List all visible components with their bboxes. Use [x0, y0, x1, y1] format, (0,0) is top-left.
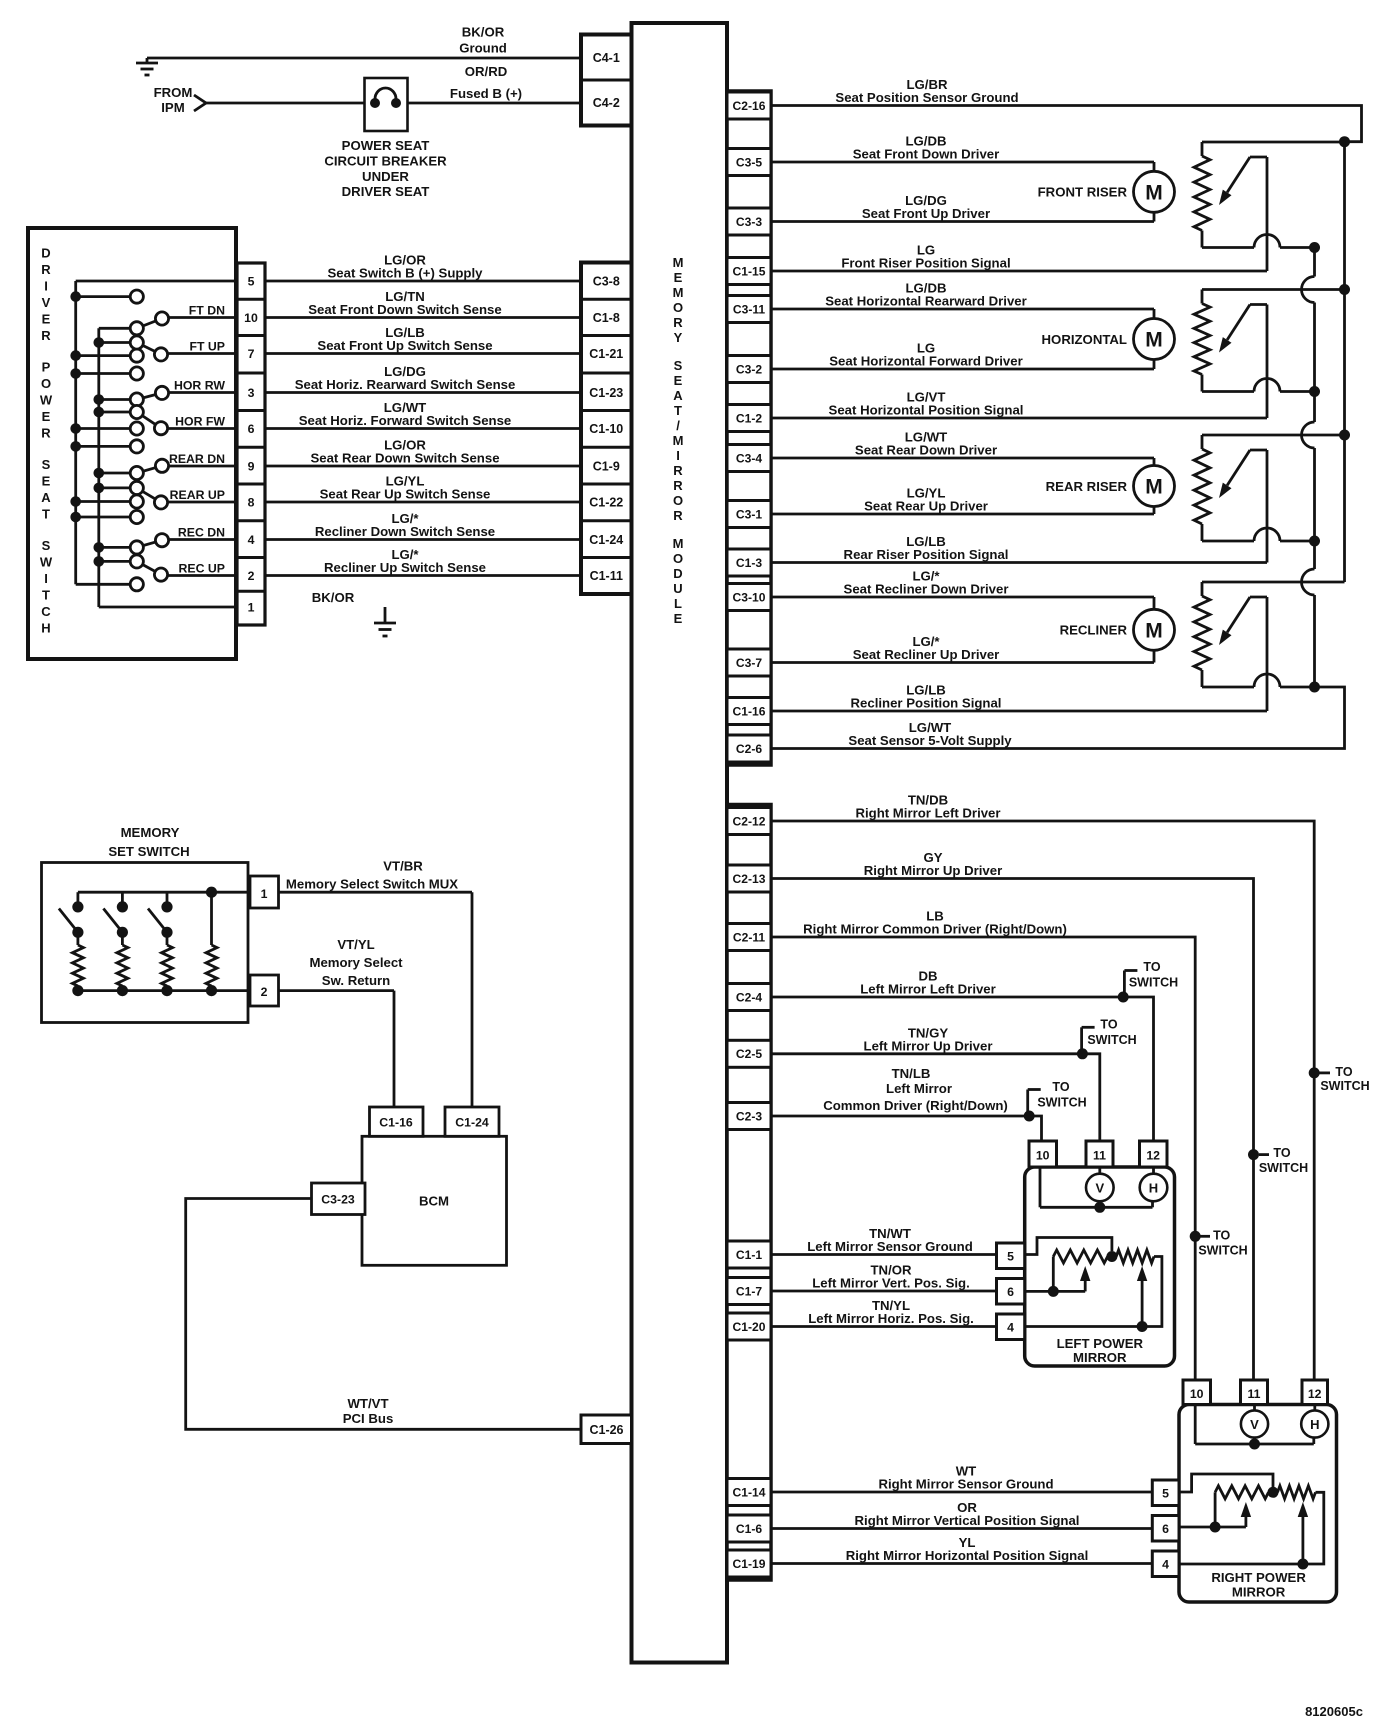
- svg-text:C3-11: C3-11: [733, 302, 766, 316]
- svg-text:VT/BR: VT/BR: [383, 859, 423, 874]
- svg-text:A: A: [673, 388, 683, 403]
- svg-text:TO: TO: [1335, 1065, 1352, 1079]
- svg-text:C3-10: C3-10: [733, 590, 766, 604]
- svg-text:R: R: [41, 262, 51, 277]
- svg-text:8: 8: [248, 496, 255, 510]
- svg-text:2: 2: [261, 985, 268, 999]
- svg-text:L: L: [674, 596, 682, 611]
- svg-text:M: M: [673, 285, 684, 300]
- svg-text:O: O: [673, 493, 683, 508]
- svg-text:/: /: [676, 418, 680, 433]
- svg-text:4: 4: [1007, 1321, 1014, 1335]
- svg-text:U: U: [673, 581, 682, 596]
- svg-text:E: E: [674, 373, 683, 388]
- svg-text:C1-21: C1-21: [589, 347, 623, 361]
- svg-text:R: R: [673, 315, 683, 330]
- svg-text:C2-6: C2-6: [736, 742, 762, 756]
- svg-text:C1-24: C1-24: [589, 533, 623, 547]
- svg-text:M: M: [673, 433, 684, 448]
- svg-text:T: T: [674, 403, 682, 418]
- svg-text:4: 4: [248, 533, 255, 547]
- svg-text:C1-16: C1-16: [733, 704, 766, 718]
- svg-text:E: E: [42, 312, 51, 327]
- svg-text:C3-2: C3-2: [736, 362, 762, 376]
- svg-text:C3-8: C3-8: [593, 275, 620, 289]
- svg-text:Left Mirror: Left Mirror: [886, 1081, 952, 1096]
- svg-text:E: E: [674, 270, 683, 285]
- svg-text:Fused B (+): Fused B (+): [450, 86, 522, 101]
- svg-text:11: 11: [1093, 1149, 1106, 1163]
- svg-text:M: M: [1145, 329, 1163, 352]
- svg-text:4: 4: [1162, 1558, 1169, 1572]
- svg-text:Left Mirror Vert. Pos. Sig.: Left Mirror Vert. Pos. Sig.: [812, 1276, 970, 1291]
- svg-text:C2-16: C2-16: [733, 99, 766, 113]
- svg-text:C3-3: C3-3: [736, 215, 762, 229]
- svg-text:C1-1: C1-1: [736, 1248, 762, 1262]
- svg-text:E: E: [42, 409, 51, 424]
- svg-text:REC UP: REC UP: [179, 562, 225, 576]
- svg-text:R: R: [673, 508, 683, 523]
- svg-text:Right Mirror Up Driver: Right Mirror Up Driver: [864, 863, 1002, 878]
- svg-text:R: R: [673, 478, 683, 493]
- svg-text:C1-8: C1-8: [593, 311, 620, 325]
- svg-text:BCM: BCM: [419, 1194, 449, 1209]
- svg-text:HORIZONTAL: HORIZONTAL: [1042, 332, 1127, 347]
- svg-text:Sw. Return: Sw. Return: [322, 973, 390, 988]
- svg-text:V: V: [1250, 1417, 1259, 1432]
- svg-text:IPM: IPM: [161, 100, 184, 115]
- svg-text:11: 11: [1248, 1387, 1261, 1401]
- svg-text:C1-24: C1-24: [455, 1116, 489, 1130]
- svg-text:I: I: [44, 571, 48, 586]
- svg-text:SWITCH: SWITCH: [1129, 976, 1178, 990]
- svg-text:Recliner Down Switch Sense: Recliner Down Switch Sense: [315, 524, 495, 539]
- svg-text:Right Mirror Horizontal Positi: Right Mirror Horizontal Position Signal: [846, 1548, 1089, 1563]
- svg-text:H: H: [41, 621, 50, 636]
- svg-text:R: R: [673, 463, 683, 478]
- svg-text:W: W: [40, 393, 53, 408]
- svg-text:Rear Riser Position Signal: Rear Riser Position Signal: [844, 547, 1009, 562]
- svg-text:V: V: [42, 295, 51, 310]
- svg-text:S: S: [42, 538, 51, 553]
- svg-text:BK/OR: BK/OR: [312, 590, 355, 605]
- svg-text:1: 1: [261, 887, 268, 901]
- svg-text:C2-12: C2-12: [733, 814, 766, 828]
- svg-text:DRIVER SEAT: DRIVER SEAT: [342, 184, 430, 199]
- svg-text:C3-5: C3-5: [736, 155, 762, 169]
- svg-text:10: 10: [244, 311, 258, 325]
- svg-text:C3-7: C3-7: [736, 656, 762, 670]
- svg-text:SWITCH: SWITCH: [1087, 1033, 1136, 1047]
- svg-text:Ground: Ground: [459, 41, 507, 56]
- svg-text:C4-2: C4-2: [593, 96, 620, 110]
- svg-text:R: R: [41, 328, 51, 343]
- svg-text:C2-4: C2-4: [736, 990, 762, 1004]
- svg-text:O: O: [41, 376, 51, 391]
- svg-text:R: R: [41, 426, 51, 441]
- svg-text:UNDER: UNDER: [362, 169, 409, 184]
- svg-text:3: 3: [248, 386, 255, 400]
- svg-text:SWITCH: SWITCH: [1198, 1243, 1247, 1257]
- svg-text:Left Mirror Sensor Ground: Left Mirror Sensor Ground: [807, 1239, 973, 1254]
- svg-text:HOR FW: HOR FW: [175, 415, 225, 429]
- svg-text:Seat Horizontal Rearward Drive: Seat Horizontal Rearward Driver: [825, 294, 1027, 309]
- svg-text:C2-3: C2-3: [736, 1109, 762, 1123]
- svg-text:A: A: [41, 490, 51, 505]
- svg-text:Seat Horiz. Forward Switch Sen: Seat Horiz. Forward Switch Sense: [299, 413, 512, 428]
- svg-text:WT/VT: WT/VT: [347, 1396, 388, 1411]
- svg-text:TO: TO: [1213, 1229, 1230, 1243]
- svg-text:V: V: [1095, 1180, 1104, 1195]
- svg-text:5: 5: [1162, 1487, 1169, 1501]
- svg-text:C1-2: C1-2: [736, 411, 762, 425]
- svg-text:C1-26: C1-26: [589, 1423, 623, 1437]
- svg-text:2: 2: [248, 569, 255, 583]
- svg-text:VT/YL: VT/YL: [337, 937, 374, 952]
- svg-text:TO: TO: [1100, 1018, 1117, 1032]
- svg-text:Seat Recliner Down Driver: Seat Recliner Down Driver: [844, 582, 1009, 597]
- svg-text:LEFT POWER: LEFT POWER: [1057, 1336, 1144, 1351]
- svg-text:H: H: [1149, 1180, 1158, 1195]
- svg-text:POWER SEAT: POWER SEAT: [342, 138, 430, 153]
- svg-text:RECLINER: RECLINER: [1060, 623, 1128, 638]
- svg-text:C4-1: C4-1: [593, 51, 620, 65]
- svg-text:C1-16: C1-16: [379, 1116, 413, 1130]
- svg-text:Seat Rear Up Switch Sense: Seat Rear Up Switch Sense: [320, 487, 491, 502]
- svg-text:Seat Rear Down Driver: Seat Rear Down Driver: [855, 443, 997, 458]
- svg-text:C2-11: C2-11: [733, 930, 766, 944]
- svg-text:FROM: FROM: [154, 85, 193, 100]
- svg-text:T: T: [42, 588, 50, 603]
- svg-text:Recliner Position Signal: Recliner Position Signal: [851, 696, 1002, 711]
- svg-text:Left Mirror Up Driver: Left Mirror Up Driver: [864, 1038, 993, 1053]
- svg-text:SWITCH: SWITCH: [1037, 1096, 1086, 1110]
- svg-text:Seat Rear Down Switch Sense: Seat Rear Down Switch Sense: [310, 451, 499, 466]
- svg-text:C1-3: C1-3: [736, 556, 762, 570]
- svg-text:7: 7: [248, 347, 255, 361]
- svg-text:C1-6: C1-6: [736, 1522, 762, 1536]
- svg-text:D: D: [673, 566, 682, 581]
- svg-text:C3-23: C3-23: [321, 1193, 355, 1207]
- svg-text:D: D: [41, 246, 50, 261]
- svg-text:W: W: [40, 555, 53, 570]
- svg-text:PCI Bus: PCI Bus: [343, 1411, 394, 1426]
- svg-text:M: M: [1145, 619, 1163, 642]
- svg-text:M: M: [673, 255, 684, 270]
- svg-text:C3-4: C3-4: [736, 451, 762, 465]
- svg-text:Y: Y: [674, 330, 683, 345]
- svg-text:C: C: [41, 604, 51, 619]
- svg-text:C1-7: C1-7: [736, 1284, 762, 1298]
- svg-text:C2-13: C2-13: [733, 872, 766, 886]
- svg-text:10: 10: [1036, 1149, 1050, 1163]
- svg-text:M: M: [673, 536, 684, 551]
- svg-text:S: S: [674, 358, 683, 373]
- svg-text:I: I: [676, 448, 680, 463]
- svg-text:Seat Front Up Driver: Seat Front Up Driver: [862, 206, 990, 221]
- svg-text:TN/LB: TN/LB: [892, 1066, 931, 1081]
- svg-text:Seat Front Down Switch Sense: Seat Front Down Switch Sense: [308, 302, 501, 317]
- svg-text:O: O: [673, 551, 683, 566]
- svg-text:HOR RW: HOR RW: [174, 379, 225, 393]
- svg-text:Seat Horizontal Position Signa: Seat Horizontal Position Signal: [829, 403, 1024, 418]
- svg-text:C2-5: C2-5: [736, 1047, 762, 1061]
- svg-text:TO: TO: [1273, 1146, 1290, 1160]
- svg-text:REC DN: REC DN: [178, 526, 225, 540]
- svg-text:O: O: [673, 300, 683, 315]
- svg-text:Seat Position Sensor Ground: Seat Position Sensor Ground: [835, 90, 1018, 105]
- svg-text:P: P: [42, 360, 51, 375]
- svg-text:CIRCUIT BREAKER: CIRCUIT BREAKER: [324, 153, 447, 168]
- svg-text:Seat Horizontal Forward Driver: Seat Horizontal Forward Driver: [829, 354, 1022, 369]
- svg-text:T: T: [42, 507, 50, 522]
- svg-text:TO: TO: [1052, 1080, 1069, 1094]
- svg-text:C1-19: C1-19: [733, 1557, 766, 1571]
- svg-text:FT UP: FT UP: [189, 340, 225, 354]
- svg-text:MEMORY: MEMORY: [121, 825, 180, 840]
- svg-text:S: S: [42, 457, 51, 472]
- svg-text:Seat Front Down Driver: Seat Front Down Driver: [853, 147, 1000, 162]
- svg-text:BK/OR: BK/OR: [462, 25, 505, 40]
- svg-text:REAR UP: REAR UP: [170, 488, 225, 502]
- svg-text:H: H: [1310, 1417, 1319, 1432]
- svg-text:MIRROR: MIRROR: [1073, 1350, 1127, 1365]
- svg-text:6: 6: [1007, 1285, 1014, 1299]
- svg-text:C1-9: C1-9: [593, 460, 620, 474]
- svg-text:12: 12: [1146, 1149, 1160, 1163]
- svg-text:6: 6: [1162, 1522, 1169, 1536]
- svg-text:9: 9: [248, 460, 255, 474]
- svg-text:C1-10: C1-10: [589, 422, 623, 436]
- svg-text:5: 5: [1007, 1250, 1014, 1264]
- svg-text:Right Mirror Left Driver: Right Mirror Left Driver: [855, 806, 1000, 821]
- svg-text:Common Driver (Right/Down): Common Driver (Right/Down): [823, 1098, 1008, 1113]
- svg-text:C1-23: C1-23: [589, 386, 623, 400]
- svg-text:6: 6: [248, 422, 255, 436]
- svg-text:1: 1: [248, 601, 255, 615]
- svg-text:C1-22: C1-22: [589, 496, 623, 510]
- svg-text:Right Mirror Common Driver (Ri: Right Mirror Common Driver (Right/Down): [803, 922, 1067, 937]
- svg-text:M: M: [1145, 181, 1163, 204]
- svg-text:5: 5: [248, 275, 255, 289]
- svg-text:Seat Front Up Switch Sense: Seat Front Up Switch Sense: [317, 338, 492, 353]
- svg-text:C3-1: C3-1: [736, 507, 762, 521]
- svg-text:SWITCH: SWITCH: [1320, 1079, 1369, 1093]
- svg-text:8120605c: 8120605c: [1305, 1704, 1363, 1719]
- svg-text:E: E: [674, 611, 683, 626]
- svg-text:Seat Rear Up Driver: Seat Rear Up Driver: [864, 499, 988, 514]
- svg-text:Memory Select: Memory Select: [309, 955, 403, 970]
- svg-text:REAR RISER: REAR RISER: [1046, 479, 1128, 494]
- svg-text:10: 10: [1190, 1387, 1204, 1401]
- svg-text:Left Mirror Horiz. Pos. Sig.: Left Mirror Horiz. Pos. Sig.: [808, 1311, 974, 1326]
- svg-text:C1-15: C1-15: [733, 264, 766, 278]
- svg-text:Seat Sensor 5-Volt Supply: Seat Sensor 5-Volt Supply: [848, 733, 1012, 748]
- svg-text:M: M: [1145, 476, 1163, 499]
- svg-text:E: E: [42, 474, 51, 489]
- svg-text:TO: TO: [1143, 960, 1160, 974]
- svg-text:OR/RD: OR/RD: [465, 64, 508, 79]
- svg-text:SWITCH: SWITCH: [1259, 1161, 1308, 1175]
- svg-text:SET SWITCH: SET SWITCH: [108, 844, 189, 859]
- svg-text:Left Mirror Left Driver: Left Mirror Left Driver: [860, 982, 996, 997]
- svg-text:RIGHT POWER: RIGHT POWER: [1211, 1570, 1306, 1585]
- svg-text:C1-20: C1-20: [733, 1320, 766, 1334]
- svg-text:Right Mirror Vertical Position: Right Mirror Vertical Position Signal: [855, 1513, 1080, 1528]
- svg-text:12: 12: [1308, 1387, 1322, 1401]
- svg-text:Memory Select Switch MUX: Memory Select Switch MUX: [286, 877, 458, 892]
- svg-text:Seat Recliner Up Driver: Seat Recliner Up Driver: [853, 647, 1000, 662]
- svg-text:FRONT RISER: FRONT RISER: [1038, 185, 1128, 200]
- svg-text:FT DN: FT DN: [189, 304, 225, 318]
- svg-text:REAR DN: REAR DN: [169, 452, 225, 466]
- svg-text:I: I: [44, 279, 48, 294]
- svg-text:C1-11: C1-11: [590, 569, 623, 583]
- svg-text:Recliner Up Switch Sense: Recliner Up Switch Sense: [324, 560, 486, 575]
- svg-text:C1-14: C1-14: [733, 1485, 766, 1499]
- svg-text:Seat Horiz. Rearward Switch Se: Seat Horiz. Rearward Switch Sense: [295, 377, 516, 392]
- svg-text:Right Mirror Sensor Ground: Right Mirror Sensor Ground: [878, 1477, 1053, 1492]
- svg-text:MIRROR: MIRROR: [1232, 1585, 1286, 1600]
- svg-text:Front Riser Position Signal: Front Riser Position Signal: [841, 256, 1010, 271]
- svg-text:Seat Switch B (+) Supply: Seat Switch B (+) Supply: [328, 266, 484, 281]
